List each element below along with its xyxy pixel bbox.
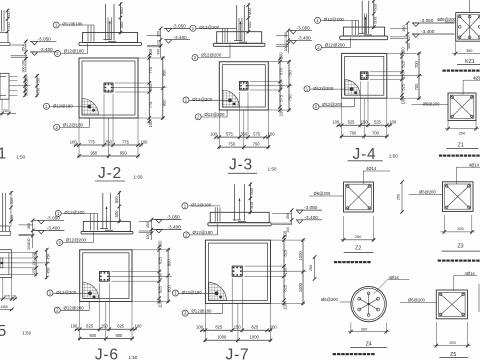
svg-text:100: 100: [148, 120, 153, 128]
svg-text:500: 500: [249, 187, 254, 195]
svg-text:Z1: Z1: [458, 143, 464, 149]
svg-text:500: 500: [119, 7, 124, 15]
svg-text:1000: 1000: [298, 251, 303, 261]
svg-text:Ø6@200: Ø6@200: [423, 102, 440, 107]
svg-text:100: 100: [279, 109, 284, 117]
svg-text:100: 100: [401, 97, 406, 105]
svg-text:350: 350: [240, 132, 248, 137]
svg-text:500: 500: [7, 22, 11, 28]
svg-text:350: 350: [105, 139, 113, 144]
svg-text:100: 100: [332, 120, 340, 125]
svg-text:500: 500: [372, 3, 377, 11]
svg-text:500: 500: [114, 196, 119, 204]
svg-text:Ø6@200: Ø6@200: [314, 191, 331, 196]
svg-text:250: 250: [459, 130, 466, 135]
svg-text:Ø12@180: Ø12@180: [53, 104, 74, 109]
svg-text:Ø12@180: Ø12@180: [182, 290, 203, 295]
svg-text:100: 100: [156, 40, 160, 46]
svg-text:350: 350: [284, 32, 288, 38]
svg-text:Ø12@200: Ø12@200: [64, 210, 85, 215]
svg-text:575: 575: [226, 132, 234, 137]
svg-text:-3.050: -3.050: [47, 215, 61, 220]
svg-text:Ø12@200: Ø12@200: [322, 102, 343, 107]
svg-text:100: 100: [401, 47, 406, 55]
svg-text:450: 450: [46, 268, 50, 274]
svg-text:575: 575: [279, 94, 284, 102]
svg-text:Ø12@200: Ø12@200: [199, 25, 220, 30]
svg-text:-3.050: -3.050: [167, 215, 181, 220]
svg-text:Ø12@180: Ø12@180: [62, 22, 83, 27]
svg-text:300: 300: [22, 67, 26, 73]
svg-text:-3.400: -3.400: [298, 35, 312, 40]
svg-text:-3.050: -3.050: [420, 18, 434, 23]
svg-text:675: 675: [4, 294, 10, 298]
svg-text:700: 700: [414, 83, 419, 91]
svg-text:750: 750: [288, 70, 293, 78]
svg-text:150: 150: [401, 71, 406, 79]
svg-text:775: 775: [88, 139, 96, 144]
svg-text:100: 100: [210, 132, 218, 137]
svg-text:Z3: Z3: [457, 243, 463, 249]
svg-text:100: 100: [389, 120, 397, 125]
svg-text:1:50: 1:50: [134, 175, 143, 180]
svg-text:350: 350: [146, 222, 150, 228]
svg-text:150: 150: [234, 325, 242, 330]
svg-text:750: 750: [228, 142, 236, 147]
svg-text:500: 500: [7, 11, 11, 17]
svg-text:100: 100: [22, 60, 26, 66]
svg-text:250: 250: [25, 80, 29, 86]
svg-text:100: 100: [407, 35, 411, 41]
svg-text:Z5: Z5: [450, 352, 456, 358]
svg-text:500: 500: [119, 21, 124, 29]
svg-text:Ø12@180: Ø12@180: [193, 230, 214, 235]
svg-text:150: 150: [101, 324, 109, 329]
svg-text:250: 250: [449, 340, 456, 345]
svg-text:300: 300: [407, 43, 411, 49]
svg-text:275: 275: [32, 268, 36, 274]
svg-text:100: 100: [286, 227, 290, 233]
svg-text:250: 250: [25, 90, 29, 96]
svg-text:J-3: J-3: [229, 157, 253, 174]
svg-text:1450: 1450: [0, 305, 8, 309]
svg-text:500: 500: [249, 201, 254, 209]
svg-text:250: 250: [396, 194, 400, 200]
svg-text:Ø12@200: Ø12@200: [192, 97, 213, 102]
svg-text:■■■■■■■■■■: ■■■■■■■■■■: [332, 351, 375, 356]
svg-text:450: 450: [46, 254, 50, 260]
svg-text:100: 100: [270, 325, 278, 330]
svg-text:825: 825: [215, 325, 223, 330]
svg-text:775: 775: [122, 139, 130, 144]
svg-text:100: 100: [158, 300, 163, 308]
svg-text:300: 300: [284, 46, 288, 52]
svg-text:750: 750: [37, 88, 41, 94]
svg-text:525: 525: [401, 60, 406, 68]
svg-text:100: 100: [70, 139, 78, 144]
svg-text:■■■■■■■■■: ■■■■■■■■■: [442, 68, 480, 73]
svg-text:-3.400: -3.400: [174, 35, 188, 40]
svg-text:J-7: J-7: [226, 346, 250, 360]
svg-text:4Ø14: 4Ø14: [366, 166, 377, 171]
svg-text:1:50: 1:50: [16, 155, 25, 160]
svg-text:100: 100: [196, 325, 204, 330]
svg-text:Z4: Z4: [366, 342, 372, 348]
svg-text:100: 100: [146, 234, 150, 240]
svg-text:250: 250: [457, 226, 464, 231]
svg-text:750: 750: [288, 94, 293, 102]
svg-text:Ø12@180: Ø12@180: [191, 203, 212, 208]
svg-text:Ø12@200: Ø12@200: [313, 86, 334, 91]
svg-text:300: 300: [27, 244, 31, 250]
svg-text:500: 500: [372, 16, 377, 24]
svg-text:700: 700: [349, 131, 357, 136]
svg-text:150: 150: [32, 260, 36, 266]
svg-text:950: 950: [161, 69, 166, 77]
svg-text:750: 750: [3, 109, 9, 113]
svg-text:1000: 1000: [298, 282, 303, 292]
svg-text:Ø12@180: Ø12@180: [64, 49, 85, 54]
svg-text:625: 625: [86, 324, 94, 329]
svg-text:500: 500: [247, 21, 252, 29]
svg-text:500: 500: [114, 210, 119, 218]
svg-text:Ø12@200: Ø12@200: [324, 17, 345, 22]
svg-text:Ø12@180: Ø12@180: [191, 308, 212, 313]
svg-text:775: 775: [148, 101, 153, 109]
svg-text:825: 825: [251, 325, 259, 330]
svg-text:800: 800: [167, 259, 172, 267]
svg-text:625: 625: [158, 286, 163, 294]
svg-text:Ø12@200: Ø12@200: [204, 112, 225, 117]
svg-text:350: 350: [27, 223, 31, 229]
svg-text:350: 350: [466, 48, 473, 53]
svg-text:-3.050: -3.050: [304, 205, 318, 210]
svg-text:4Ø6@200: 4Ø6@200: [437, 17, 457, 22]
svg-text:150: 150: [361, 120, 369, 125]
svg-text:700: 700: [414, 60, 419, 68]
svg-text:KZ1: KZ1: [465, 59, 475, 65]
svg-text:100: 100: [135, 324, 143, 329]
svg-text:100: 100: [70, 324, 78, 329]
svg-text:275: 275: [32, 252, 36, 258]
svg-text:350: 350: [402, 25, 406, 31]
svg-text:750: 750: [37, 78, 41, 84]
svg-text:Z2: Z2: [355, 246, 361, 252]
svg-text:J-6: J-6: [95, 346, 119, 360]
svg-text:Ø12@180: Ø12@180: [63, 123, 84, 128]
svg-text:Ø12@200: Ø12@200: [66, 238, 87, 243]
svg-text:950: 950: [161, 99, 166, 107]
svg-text:300: 300: [361, 326, 368, 331]
svg-text:Ø12@200: Ø12@200: [64, 305, 85, 310]
svg-text:525: 525: [348, 120, 356, 125]
svg-text:-3.400: -3.400: [305, 215, 319, 220]
svg-text:-3.400: -3.400: [40, 47, 54, 52]
svg-text:575: 575: [279, 67, 284, 75]
svg-text:625: 625: [117, 324, 125, 329]
svg-text:250: 250: [309, 265, 313, 271]
svg-text:100: 100: [27, 239, 31, 245]
svg-text:-3.050: -3.050: [173, 24, 187, 29]
svg-text:100: 100: [158, 240, 163, 248]
svg-text:1:50: 1:50: [389, 153, 398, 158]
svg-text:350: 350: [279, 82, 284, 90]
svg-text:350: 350: [286, 213, 290, 219]
svg-text:350: 350: [22, 45, 26, 51]
svg-text:-3.050: -3.050: [38, 36, 52, 41]
svg-text:4Ø14: 4Ø14: [473, 75, 480, 80]
svg-text:950: 950: [90, 150, 98, 155]
svg-text:800: 800: [115, 333, 123, 338]
svg-text:500: 500: [247, 7, 252, 15]
svg-text:825: 825: [283, 284, 288, 292]
svg-text:100: 100: [11, 294, 17, 298]
svg-text:■■■■■■■■■: ■■■■■■■■■: [334, 260, 372, 265]
svg-text:625: 625: [158, 256, 163, 264]
svg-text:950: 950: [120, 150, 128, 155]
svg-text:825: 825: [283, 249, 288, 257]
svg-text:150: 150: [158, 272, 163, 280]
svg-text:4Ø14: 4Ø14: [389, 275, 400, 280]
svg-text:1:50: 1:50: [268, 167, 277, 172]
svg-text:4Ø14: 4Ø14: [465, 271, 476, 276]
svg-text:1:50: 1:50: [129, 355, 138, 360]
svg-text:-3.400: -3.400: [421, 29, 435, 34]
svg-text:■■■■■■■■■■: ■■■■■■■■■■: [439, 153, 480, 158]
svg-text:100: 100: [284, 39, 288, 45]
svg-text:J-1: J-1: [0, 146, 7, 163]
svg-text:Ø12@200: Ø12@200: [56, 290, 77, 295]
svg-text:Ø6@200: Ø6@200: [321, 297, 338, 302]
svg-text:500: 500: [10, 215, 14, 221]
svg-text:400: 400: [156, 49, 160, 55]
svg-text:750: 750: [253, 142, 261, 147]
svg-text:1000: 1000: [250, 335, 260, 340]
svg-text:Ø12@200: Ø12@200: [201, 53, 222, 58]
svg-text:350: 350: [156, 31, 160, 37]
svg-text:800: 800: [167, 284, 172, 292]
svg-text:700: 700: [372, 131, 380, 136]
svg-text:350: 350: [148, 83, 153, 91]
svg-text:Ø6@200: Ø6@200: [408, 298, 425, 303]
svg-text:J-5: J-5: [0, 323, 7, 340]
svg-text:100: 100: [141, 139, 149, 144]
svg-text:250: 250: [355, 234, 362, 239]
svg-text:525: 525: [374, 120, 382, 125]
svg-text:100: 100: [279, 52, 284, 60]
svg-text:-3.400: -3.400: [168, 225, 182, 230]
svg-text:100: 100: [148, 48, 153, 56]
svg-text:J-2: J-2: [98, 165, 122, 182]
svg-text:Ø12@200: Ø12@200: [325, 43, 346, 48]
svg-text:500: 500: [10, 198, 14, 204]
svg-text:150: 150: [283, 267, 288, 275]
svg-text:775: 775: [148, 66, 153, 74]
svg-text:100: 100: [283, 302, 288, 310]
svg-text:525: 525: [401, 83, 406, 91]
svg-text:1000: 1000: [217, 335, 227, 340]
svg-text:Ø6@200: Ø6@200: [419, 190, 436, 195]
svg-text:100: 100: [268, 132, 276, 137]
svg-text:■■■■■■■■■■: ■■■■■■■■■■: [437, 258, 480, 263]
svg-text:1:50: 1:50: [22, 331, 31, 336]
svg-text:-3.050: -3.050: [297, 25, 311, 30]
svg-text:800: 800: [89, 333, 97, 338]
svg-text:575: 575: [253, 132, 261, 137]
svg-text:4Ø14: 4Ø14: [469, 162, 480, 167]
svg-text:-3.400: -3.400: [47, 226, 61, 231]
